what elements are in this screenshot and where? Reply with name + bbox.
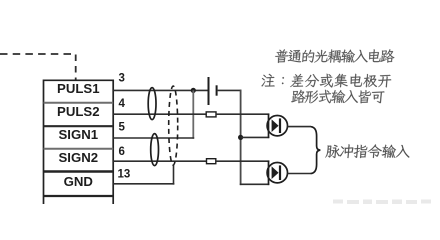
- wire pin3 (PULS1) from box to capacitor: [113, 89, 207, 91]
- vertical bus wire from pin3 corner down to bottom branch: [240, 90, 242, 186]
- wire pin13 (GND) from box to shield drain: [113, 183, 174, 185]
- connector terminal block outline: [44, 80, 114, 204]
- wire pin5 (SIGN1) from box to node A drop: [113, 137, 194, 139]
- svg-text:PULS2: PULS2: [57, 104, 100, 119]
- capacitor C1 plate right (short): [216, 85, 218, 95]
- wire output of U1 to brace: [288, 126, 312, 128]
- grouping brace for pulse command inputs: [311, 127, 321, 174]
- svg-text:3: 3: [119, 73, 125, 85]
- svg-text:5: 5: [119, 122, 126, 134]
- capacitor C1 plate left (tall): [208, 77, 210, 105]
- wire from node B to optocoupler U1 lower input: [241, 136, 270, 138]
- optocoupler U2 (sign input): [267, 161, 287, 186]
- cable shield dashed ellipse: [169, 86, 178, 165]
- svg-text:SIGN2: SIGN2: [59, 150, 99, 165]
- annotation note line 1: differential or open-collector: [261, 74, 392, 88]
- optocoupler U1 (pulse input): [267, 114, 287, 139]
- svg-text:13: 13: [118, 168, 131, 180]
- svg-text:4: 4: [119, 98, 126, 110]
- svg-text:SIGN1: SIGN1: [59, 127, 99, 142]
- divider SIGN1/SIGN2: [44, 148, 114, 150]
- wire pin4 from resistor to optocoupler U1: [216, 113, 269, 115]
- divider PULS2/SIGN1: [44, 125, 114, 127]
- divider below GND: [44, 195, 114, 197]
- twisted pair ellipse (PULS pair): [148, 88, 156, 120]
- wire from node A down to SIGN1 wire: [192, 90, 194, 138]
- node B junction dot: [238, 135, 243, 140]
- divider SIGN2/GND: [44, 170, 114, 173]
- resistor R1 on PULS2 wire: [206, 112, 216, 117]
- wire: dashed cable from controller (horizontal): [0, 53, 76, 55]
- label: pulse command input: [325, 144, 410, 158]
- svg-text:6: 6: [119, 146, 125, 158]
- divider PULS1/PULS2: [44, 102, 114, 104]
- wire pin3 after capacitor to corner: [218, 89, 242, 91]
- resistor R2 on SIGN2 wire: [207, 159, 216, 164]
- annotation: ordinary optocoupler input circuit: [275, 49, 396, 63]
- annotation note line 2: form input acceptable: [291, 90, 385, 104]
- faint cropped text row at bottom edge: [333, 200, 431, 205]
- wire: dashed cable drop to connector (vertical): [75, 55, 77, 80]
- wire bottom branch from vertical bus to optocoupler U2 lower input: [240, 183, 269, 185]
- wire pin6 (SIGN2) from box to resistor R2: [113, 160, 206, 162]
- wire output of U2 to brace: [288, 173, 312, 175]
- node A junction dot on wire pin3: [191, 88, 196, 93]
- shield drain wire up to shield ellipse: [173, 165, 175, 185]
- wire pin6 from resistor to optocoupler U2: [216, 160, 269, 162]
- twisted pair ellipse (SIGN pair): [151, 134, 159, 166]
- svg-text:GND: GND: [64, 174, 93, 189]
- svg-text:PULS1: PULS1: [57, 81, 100, 96]
- wire pin4 (PULS2) from box to resistor R1: [113, 113, 206, 115]
